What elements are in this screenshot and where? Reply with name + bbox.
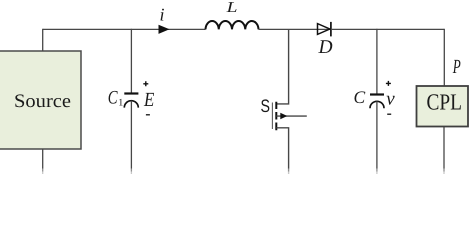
svg-text:P: P — [452, 56, 461, 78]
CPL block box — [417, 86, 469, 127]
polarity minus sign for v — [387, 113, 391, 115]
svg-text:i: i — [160, 5, 165, 25]
transistor S channel segments — [275, 102, 277, 130]
wire from capacitor C1 bottom plate down — [130, 101, 132, 169]
capacitor C1 curved bottom plate — [124, 101, 138, 108]
transistor S gate bar — [271, 103, 273, 130]
transistor S source lead and wire down — [276, 128, 288, 169]
svg-text:C: C — [354, 87, 366, 107]
svg-text:S: S — [261, 96, 271, 116]
polarity plus sign for v — [386, 81, 391, 86]
wire from top rail junction down to transistor S drain — [276, 29, 288, 104]
wire from top rail down to capacitor C1 top plate — [130, 29, 132, 93]
wire top rail left from source to inductor — [43, 28, 206, 30]
capacitor C curved bottom plate — [370, 101, 384, 108]
polarity plus sign for E — [143, 81, 148, 86]
wire stub from source box bottom — [42, 149, 44, 169]
wire stub below CPL box — [443, 127, 445, 169]
capacitor C1 top plate — [124, 92, 138, 94]
svg-text:C: C — [108, 87, 118, 108]
wire top rail between inductor and diode — [259, 28, 331, 30]
current direction arrow on top rail — [159, 25, 170, 34]
wire from top rail down to capacitor C top plate — [376, 29, 378, 94]
transistor S body lead with arrow — [276, 115, 307, 117]
capacitor C top plate — [370, 93, 384, 95]
diode D cathode bar — [330, 22, 332, 37]
svg-text:E: E — [143, 89, 154, 111]
svg-text:L: L — [225, 0, 237, 16]
wire riser from rail right corner down to CPL box — [443, 29, 445, 86]
source block box — [0, 51, 81, 149]
wire top rail from diode to right corner — [331, 28, 444, 30]
wire riser from top rail down to source box top — [42, 29, 44, 51]
svg-text:1: 1 — [118, 98, 123, 109]
svg-text:D: D — [318, 37, 333, 58]
polarity minus sign for E — [146, 114, 150, 116]
svg-text:Source: Source — [14, 91, 71, 112]
svg-text:v: v — [386, 88, 395, 109]
inductor L coil — [206, 21, 259, 29]
diode D anode triangle — [318, 24, 330, 35]
wire from capacitor C bottom plate down — [376, 101, 378, 168]
svg-text:CPL: CPL — [426, 90, 462, 115]
